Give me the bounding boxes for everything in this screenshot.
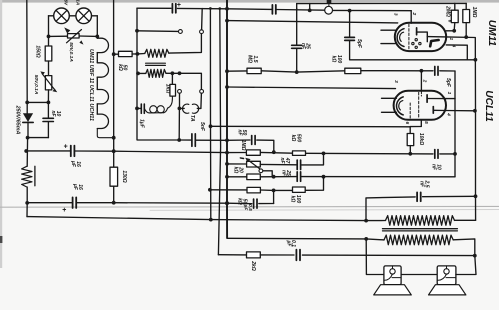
barretter 50V,0.1A vertical bbox=[45, 76, 51, 90]
transformer core bbox=[383, 228, 458, 230]
svg-text:16µF: 16µF bbox=[72, 183, 83, 191]
node busD UM grid line bbox=[225, 19, 229, 23]
winding L2 bbox=[146, 69, 166, 77]
switch arm bbox=[137, 30, 179, 33]
capacitor 10nF (rectifier) bbox=[47, 102, 49, 118]
resistor 1kOhm bbox=[171, 73, 173, 84]
capacitor on rail x274 bbox=[271, 5, 273, 14]
svg-text:2kΩ: 2kΩ bbox=[250, 260, 256, 271]
wire speaker1 feed bbox=[366, 239, 384, 275]
svg-text:1MΩ: 1MΩ bbox=[471, 7, 477, 18]
wire UCL g3 line bbox=[227, 87, 396, 89]
resistor pot lower bbox=[247, 161, 261, 167]
node busD pot bbox=[225, 162, 229, 166]
node border 50k bbox=[136, 52, 140, 56]
wire row1 bbox=[227, 152, 246, 154]
node L2 tap 1k bbox=[171, 71, 175, 75]
resistor 100kOhm grid bbox=[345, 68, 361, 73]
contact circle b bbox=[200, 30, 204, 34]
svg-text:5nF: 5nF bbox=[199, 122, 205, 132]
UM11 grid wires bbox=[415, 39, 417, 41]
wire UM11 grid line bbox=[227, 21, 398, 23]
svg-text:4: 4 bbox=[446, 112, 452, 116]
capacitor 10nF UCL bbox=[434, 150, 436, 159]
node pin4 right bus bbox=[473, 109, 477, 113]
core bars bbox=[146, 62, 166, 64]
resistor 50kOhm tone bbox=[247, 187, 260, 193]
UCL11 triode anode bbox=[426, 95, 428, 102]
node 5pF line join bbox=[474, 58, 478, 62]
svg-text:500kΩ: 500kΩ bbox=[290, 134, 301, 143]
node lamp right junction bbox=[95, 35, 99, 39]
node rail x310 bbox=[308, 9, 312, 13]
svg-text:UCL11: UCL11 bbox=[483, 90, 494, 122]
svg-text:50V,0.1A: 50V,0.1A bbox=[33, 75, 39, 95]
resistor pot upper 1MOhm bbox=[246, 150, 260, 155]
wire secondary return bbox=[226, 237, 228, 239]
node busD row3 bbox=[225, 175, 229, 179]
UCL11 pentode anode bbox=[432, 107, 434, 114]
svg-text:5: 5 bbox=[423, 121, 429, 124]
svg-text:1kΩ: 1kΩ bbox=[165, 84, 171, 94]
node 50k tap bbox=[112, 52, 116, 56]
node busC top bbox=[218, 7, 221, 10]
node secondary left bbox=[364, 237, 368, 241]
svg-text:+: + bbox=[64, 144, 68, 151]
wire riser rail to top line bbox=[309, 4, 311, 11]
capacitor 2.5nF bbox=[416, 192, 418, 201]
UM11 cathode bbox=[416, 28, 418, 35]
svg-text:2MΩ: 2MΩ bbox=[445, 5, 451, 17]
wire bus202 top bbox=[201, 9, 204, 30]
wire barretter row bbox=[49, 35, 68, 37]
svg-text:50V,0.1A: 50V,0.1A bbox=[68, 42, 74, 62]
UM11 pin6 wire bbox=[446, 30, 454, 32]
svg-text:100kΩ: 100kΩ bbox=[290, 195, 301, 204]
wire bus B x210 bbox=[209, 9, 211, 220]
node row4 mid bbox=[272, 189, 276, 193]
resistor 20kOhm bbox=[247, 174, 260, 180]
svg-text:250V/65mA: 250V/65mA bbox=[15, 105, 21, 135]
node 5nF left bbox=[177, 138, 181, 142]
wire bus C x219 bbox=[218, 9, 220, 255]
svg-text:2: 2 bbox=[422, 79, 428, 83]
node busB primary bbox=[209, 218, 213, 222]
resistor 2kOhm bbox=[247, 252, 261, 258]
svg-text:+: + bbox=[177, 2, 181, 9]
wire 2k to cap bbox=[260, 254, 294, 256]
svg-text:5pF: 5pF bbox=[445, 78, 451, 88]
node row3 left bbox=[272, 175, 276, 179]
transformer primary bbox=[366, 220, 385, 222]
wire rectifier to rail bbox=[26, 138, 28, 151]
svg-text:1: 1 bbox=[446, 92, 452, 95]
resistor 500kOhm bbox=[293, 151, 306, 156]
wire block top rail bbox=[137, 7, 171, 9]
node TA left bbox=[178, 107, 182, 111]
node row1 end bbox=[453, 152, 457, 156]
heater chain UM11 UBF11 UCL11 UCH11 bbox=[96, 36, 98, 38]
UM11 pin2 wire bbox=[410, 11, 412, 24]
node pin6 bbox=[452, 29, 456, 33]
svg-text:16µF: 16µF bbox=[70, 160, 81, 168]
node busB top bbox=[209, 7, 212, 10]
choke field coil bbox=[26, 151, 28, 166]
UCL11 heater stubs bbox=[382, 97, 397, 99]
node L2 tap TA bbox=[178, 71, 182, 75]
wire right bus lower bbox=[475, 111, 477, 197]
node primary left bbox=[364, 219, 368, 223]
svg-text:1,5MΩ: 1,5MΩ bbox=[246, 55, 257, 63]
wire between lamps bbox=[69, 15, 76, 17]
node row1 right bbox=[322, 152, 326, 156]
inductor coupling coil bbox=[149, 112, 163, 114]
svg-text:+: + bbox=[62, 207, 66, 214]
node mains-diode junction bbox=[25, 101, 29, 105]
node border switch arm bbox=[135, 29, 139, 33]
node barretter-10nF junction bbox=[47, 101, 51, 105]
node row1 50nF join bbox=[272, 150, 276, 154]
capacitor 5pF UCL bbox=[434, 67, 436, 76]
UCL11 grid2 dashed bbox=[409, 103, 411, 120]
wire 50nF row bbox=[227, 139, 250, 141]
UM11 deflection bar bbox=[430, 40, 438, 46]
paper fold line (decorative) bbox=[0, 205, 499, 208]
resistor 2MOhm bbox=[454, 3, 456, 10]
wire rail2 down to primary feed bbox=[26, 203, 28, 217]
UCL11 pin2 wire bbox=[420, 71, 422, 91]
wire tone contact link bbox=[263, 171, 272, 177]
svg-text:3: 3 bbox=[393, 13, 399, 16]
wire 2.5nF row bbox=[366, 197, 415, 221]
node row3 right bbox=[322, 175, 326, 179]
wire mains input left bbox=[26, 0, 28, 102]
wire diode top link bbox=[27, 101, 48, 103]
node rail1 left end bbox=[24, 149, 28, 153]
wire AF line bbox=[227, 70, 247, 72]
diode 250V/65mA bbox=[23, 113, 33, 122]
wire pin4 UM drop bbox=[446, 45, 467, 60]
node bus114 rail1 bbox=[112, 149, 116, 153]
barretter R 50V,0.1A horizontal bbox=[68, 34, 80, 38]
wire diode bottom link bbox=[28, 137, 48, 139]
node busB row4 bbox=[208, 188, 212, 192]
jack on rail bbox=[325, 6, 333, 14]
svg-text:5pF: 5pF bbox=[356, 39, 362, 49]
capacitor 0.1uF bbox=[295, 250, 297, 261]
contact circle a bbox=[179, 30, 183, 34]
node rail2 bus114 bbox=[112, 201, 116, 205]
svg-text:6: 6 bbox=[404, 121, 410, 124]
resistor 150Ohm bbox=[48, 36, 50, 46]
lamp La1 bbox=[54, 8, 70, 24]
capacitor 1uF bbox=[137, 107, 140, 109]
capacitor 5nF bbox=[179, 139, 191, 141]
wire bus D x227 (thick) bbox=[226, 0, 228, 238]
UM11 anode bbox=[426, 33, 428, 42]
svg-text:150Ω: 150Ω bbox=[35, 45, 41, 57]
wire lamp top right bbox=[92, 15, 98, 17]
svg-text:3: 3 bbox=[393, 80, 399, 83]
node border 1uF bbox=[135, 107, 139, 111]
resistor 100kOhm tone bbox=[293, 187, 306, 192]
resistor 50kOhm bbox=[114, 53, 119, 55]
UM11 heater stubs bbox=[381, 29, 396, 31]
tube UCL11 envelope bbox=[394, 91, 446, 120]
node rail2 left bbox=[25, 201, 29, 205]
wire rail2 bbox=[27, 202, 71, 204]
node 10k bottom bbox=[408, 152, 412, 156]
wire pin1 UCL bbox=[446, 98, 455, 100]
UCL11 cathode crescent bbox=[397, 97, 404, 115]
node 2.5nF right bbox=[474, 194, 478, 198]
svg-text:1A: 1A bbox=[76, 0, 81, 5]
contact circle tone bbox=[259, 169, 263, 173]
capacitor 25nF row3 bbox=[296, 172, 298, 181]
node busD UCL g line bbox=[225, 85, 229, 89]
node UCL grid tap bbox=[420, 69, 424, 73]
wire row3 bbox=[227, 176, 247, 178]
speaker LS1 bbox=[384, 266, 401, 285]
svg-text:1: 1 bbox=[448, 37, 454, 40]
wire primary feed line bbox=[27, 217, 366, 221]
wire top line to eye resistors bbox=[297, 2, 467, 4]
transformer secondary bbox=[366, 239, 384, 240]
node busD AF line bbox=[225, 69, 229, 73]
resistor 1.5MOhm bbox=[247, 68, 261, 73]
svg-text:TA: TA bbox=[189, 115, 195, 122]
wire cathode line UCL bbox=[211, 125, 411, 128]
node speaker line right bbox=[473, 254, 477, 258]
UM11 shield dashed bbox=[408, 24, 410, 50]
node busD row1 bbox=[225, 151, 229, 155]
node busD 5nF-50nF bbox=[225, 138, 229, 142]
svg-text:2: 2 bbox=[411, 11, 417, 15]
capacitor 16uF upper bbox=[70, 146, 72, 157]
tube UM11 envelope bbox=[395, 23, 446, 51]
wire lamp top left bbox=[49, 15, 54, 17]
svg-text:UM11 UBF 11 UCL11 UCH11: UM11 UBF 11 UCL11 UCH11 bbox=[88, 49, 94, 121]
svg-text:50kΩ: 50kΩ bbox=[117, 64, 128, 71]
contact circle c bbox=[178, 90, 182, 94]
wire L1 to contact bbox=[169, 34, 202, 54]
contact circle d bbox=[200, 90, 204, 94]
resistor 1MOhm bbox=[465, 3, 467, 9]
node AF 25nF bbox=[295, 70, 299, 74]
wire pin5 bbox=[410, 120, 421, 127]
wire L2 right bbox=[166, 73, 201, 89]
capacitor 0.5uF bbox=[253, 199, 255, 208]
pot wiper arrow bbox=[247, 159, 260, 169]
node diode bottom junction bbox=[26, 136, 30, 140]
node border coil bbox=[136, 72, 140, 76]
capacitor 5pF eye bbox=[349, 11, 351, 38]
capacitor 50nF bbox=[251, 136, 253, 145]
wire 0.5uF link bbox=[273, 190, 275, 203]
svg-text:UM11: UM11 bbox=[486, 20, 497, 47]
wire right col x455 bbox=[454, 71, 456, 154]
svg-text:0,5µF: 0,5µF bbox=[242, 204, 253, 212]
capacitor 25nF bbox=[296, 9, 298, 46]
svg-text:2,5nF: 2,5nF bbox=[419, 180, 430, 188]
svg-text:130Ω: 130Ω bbox=[121, 170, 127, 182]
winding L1 bbox=[145, 49, 169, 57]
svg-text:0,1µF: 0,1µF bbox=[285, 240, 296, 248]
node busD rail top bbox=[225, 7, 229, 11]
resistor 130Ohm bbox=[113, 151, 115, 167]
node 1M pin1 bbox=[464, 35, 468, 39]
node busD rail2 bbox=[225, 201, 229, 205]
wire TA left drop bbox=[179, 93, 181, 106]
lamp La2 bbox=[76, 8, 92, 24]
wire pot row bbox=[227, 163, 247, 165]
svg-text:1µF: 1µF bbox=[138, 119, 144, 129]
node busB cathode line bbox=[209, 124, 213, 128]
svg-text:100kΩ: 100kΩ bbox=[330, 55, 341, 64]
resistor 10kOhm bbox=[409, 127, 411, 134]
node lamp left junction bbox=[47, 35, 51, 39]
wire tone corrector feed bbox=[218, 254, 246, 256]
wire pin1 UM to right bus bbox=[446, 37, 475, 111]
wire 47nF row bbox=[260, 163, 296, 165]
wire row4 bbox=[210, 189, 247, 191]
UCL11 grid1 dashed bbox=[418, 92, 420, 118]
wire speaker line bbox=[302, 254, 474, 257]
svg-text:20kΩ: 20kΩ bbox=[233, 166, 244, 173]
wire between speakers bbox=[401, 274, 437, 276]
wire speaker2 return bbox=[456, 256, 476, 275]
pickup jack TA bbox=[179, 107, 184, 109]
node rail x350 bbox=[348, 9, 352, 13]
wire HT rail1 bbox=[27, 150, 70, 152]
speaker LS2 bbox=[437, 266, 456, 285]
capacitor electrolytic on rail bbox=[171, 4, 173, 13]
wire vertical bus x114 bbox=[113, 0, 115, 151]
UM11 target crescent bbox=[397, 29, 404, 47]
svg-text:1MΩ: 1MΩ bbox=[240, 140, 246, 151]
scan edge shading (decorative) bbox=[0, 0, 499, 3]
wire pin4 UCL bbox=[446, 110, 475, 112]
node heater-50k bus junction bbox=[112, 136, 116, 140]
wire block left border bbox=[137, 8, 179, 140]
capacitor 47nF bbox=[296, 160, 298, 169]
svg-text:10kΩ: 10kΩ bbox=[418, 133, 424, 145]
capacitor 16uF lower bbox=[72, 197, 74, 208]
